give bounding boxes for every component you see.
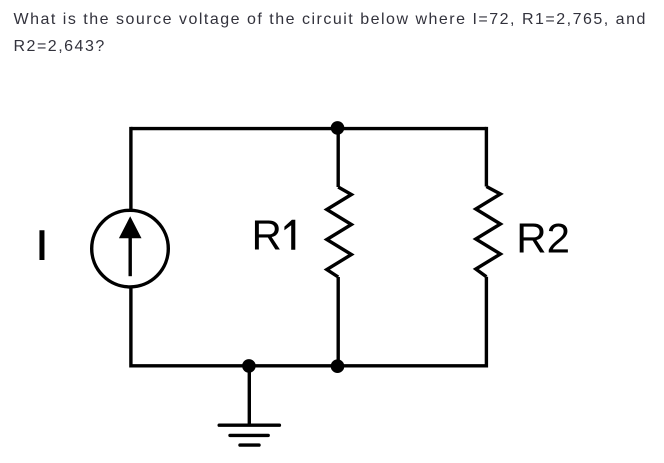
resistor R2 zigzag (476, 187, 501, 277)
svg-text:R2: R2 (516, 215, 570, 262)
current source I arrow shaft (128, 232, 131, 276)
wire R2 branch (485, 127, 488, 368)
ground bar 1 (219, 424, 279, 427)
ground bar 3 (240, 443, 259, 446)
current source I arrow head (119, 216, 142, 238)
ground stem (248, 366, 251, 425)
wire left (source branch) (129, 127, 132, 368)
label R1: digit 1 (drawn, Arial-style without foot serif) (284, 220, 295, 250)
svg-text:I: I (36, 221, 48, 268)
svg-text:R: R (252, 212, 282, 259)
ground bar 2 (230, 434, 268, 437)
wire R1 branch (337, 129, 340, 366)
current source I circle (92, 210, 169, 287)
question text (14, 6, 664, 60)
wire top (131, 127, 487, 130)
wire bottom (131, 364, 487, 367)
node dot bottom (R1/bottom wire) (331, 359, 345, 373)
node dot top (R1/top wire) (331, 121, 345, 135)
resistor R1 zigzag (327, 187, 352, 277)
node dot ground tap (242, 359, 256, 373)
